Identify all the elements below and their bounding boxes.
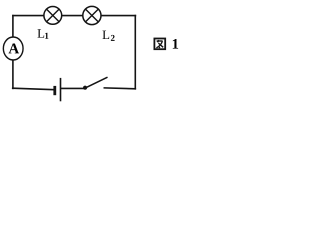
svg-text:1: 1 bbox=[172, 37, 179, 53]
svg-text:2: 2 bbox=[110, 33, 115, 43]
svg-text:1: 1 bbox=[44, 31, 49, 41]
svg-text:L: L bbox=[102, 28, 110, 42]
svg-text:A: A bbox=[8, 41, 19, 57]
